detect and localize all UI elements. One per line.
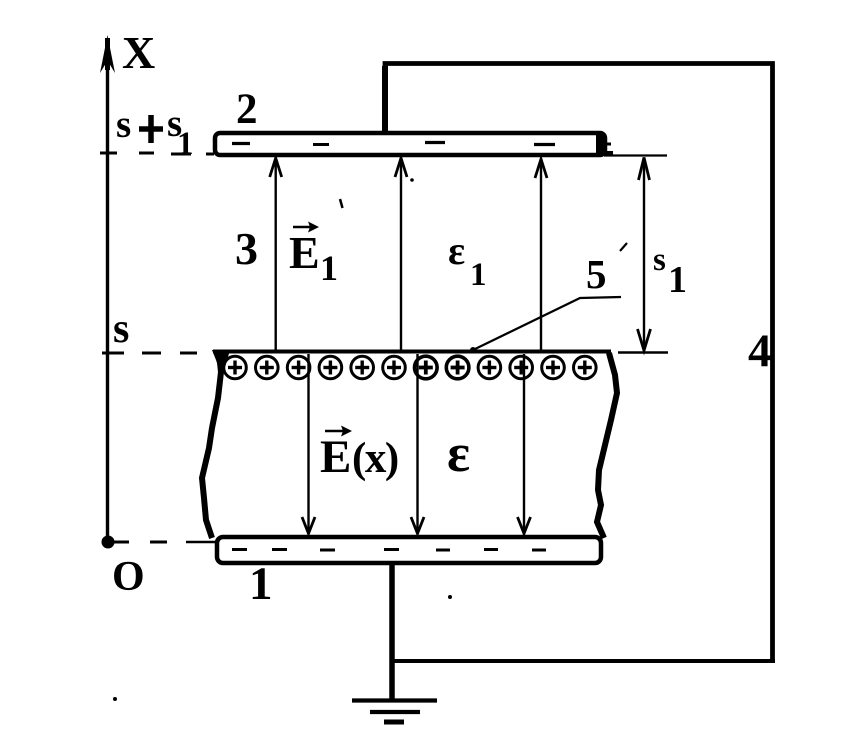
svg-text:s: s [113,306,129,352]
dielectric slab top boundary [213,350,611,354]
bottom plate 1 [217,537,601,563]
label E1 with vector arrow [289,222,338,289]
pointer line from 5 [470,297,621,353]
svg-text:1: 1 [668,259,687,301]
svg-text:1: 1 [177,126,194,162]
dashed line at O level [114,541,217,544]
svg-text:1: 1 [249,558,273,610]
svg-text:1: 1 [470,257,487,293]
svg-text:E: E [320,431,351,483]
dielectric slab right torn edge [597,353,617,538]
E1 field arrow middle [395,158,407,352]
label s+s1 [116,102,194,162]
dielectric slab left torn edge [202,350,230,538]
top plate 2 [215,133,613,155]
label epsilon1 [448,228,487,293]
thin level line right of dielectric [618,351,668,354]
svg-text:(x): (x) [352,435,398,482]
wire from plate 1 to ground [389,563,395,700]
ground [352,701,437,723]
wire from ground junction to wire 4 [390,659,775,663]
tick s on axis [102,352,124,355]
thin level line right of plate 2 [604,154,667,156]
svg-text:s: s [653,242,666,278]
tick s+s1 on axis [100,152,117,155]
svg-text:O: O [112,554,145,600]
svg-text:1: 1 [320,248,338,288]
label s1 [653,242,687,301]
svg-text:5: 5 [586,251,607,297]
origin dot [102,536,115,549]
E(x) field arrow middle [411,354,424,534]
dimension s1 [638,158,651,351]
E(x) field arrow left [302,354,315,534]
svg-text:E: E [289,227,320,278]
label E(x) with vector arrow [320,426,398,484]
row of positive surface charges [224,356,596,379]
wire from plate 2 to top and right (wire 4) [385,64,773,662]
dashed level line s [142,352,197,355]
stray ink marks [113,178,627,701]
svg-text:ε: ε [447,423,470,483]
E1 field arrow right [535,159,547,352]
svg-text:3: 3 [235,223,258,274]
E1 field arrow left [270,158,282,352]
svg-text:X: X [122,27,155,78]
svg-text:4: 4 [748,325,772,377]
svg-text:s: s [116,103,131,146]
svg-text:2: 2 [236,86,258,133]
svg-text:ε: ε [448,228,465,273]
E(x) field arrow right [518,354,531,534]
dashed level line s+s1 [139,153,214,154]
X axis [100,35,115,541]
